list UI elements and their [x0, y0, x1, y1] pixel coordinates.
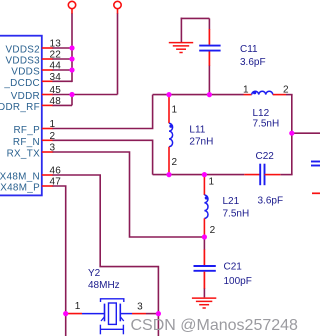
svg-text:Y2: Y2	[88, 268, 101, 279]
pin RF_N 2	[13, 131, 56, 148]
junction node pin13	[69, 45, 74, 50]
wire bottom net right of C22	[280, 174, 292, 176]
junction node C11 bottom	[207, 92, 212, 97]
pin VDDS 44	[11, 61, 61, 78]
pin RF_P 1	[13, 119, 55, 136]
svg-text:C21: C21	[224, 262, 243, 273]
capacitor at right edge (cut off)	[311, 162, 320, 194]
svg-text:VDDS3: VDDS3	[5, 56, 40, 67]
junction node L21 bottom	[202, 234, 207, 239]
svg-text:1: 1	[243, 85, 249, 96]
svg-text:CSDN @Manos257248: CSDN @Manos257248	[131, 317, 299, 334]
pin VDDR 45	[11, 85, 62, 102]
junction node L11 top	[166, 92, 171, 97]
junction node pin22	[69, 56, 74, 61]
svg-text:C22: C22	[256, 151, 275, 162]
svg-text:_DCDC: _DCDC	[3, 78, 40, 89]
junction node pin44	[69, 67, 74, 72]
svg-text:RF_N: RF_N	[13, 137, 40, 148]
ground (top, near C11)	[169, 43, 193, 53]
capacitor C21	[194, 237, 252, 297]
svg-text:27nH: 27nH	[189, 137, 213, 148]
capacitor C22	[244, 151, 283, 207]
wire bottom net y174.6	[153, 174, 245, 176]
svg-text:3.6pF: 3.6pF	[258, 196, 284, 207]
svg-text:VDDR: VDDR	[11, 91, 40, 102]
wire X48M_P path to crystal pin1	[53, 186, 66, 336]
junction node L11 bottom	[166, 172, 171, 177]
svg-text:7.5nH: 7.5nH	[253, 119, 280, 130]
junction node right vertical	[289, 131, 294, 136]
wire top net right of L12	[286, 94, 293, 96]
wire RX_TX bias path	[53, 152, 205, 237]
ground (bottom, under C21)	[192, 298, 216, 308]
svg-text:2: 2	[172, 157, 178, 168]
svg-text:X48M_N: X48M_N	[0, 172, 40, 183]
inductor L12	[243, 85, 289, 130]
svg-text:VDDS: VDDS	[11, 67, 40, 78]
svg-text:X48M_P: X48M_P	[0, 183, 40, 194]
svg-text:1: 1	[172, 105, 178, 116]
wire vertical from P2	[117, 14, 119, 95]
wire pin22 to node	[53, 58, 73, 60]
svg-text:7.5nH: 7.5nH	[223, 209, 250, 220]
svg-text:48MHz: 48MHz	[88, 280, 120, 291]
wire pin48 to node	[53, 104, 73, 106]
wire pin44 to node	[53, 69, 73, 71]
svg-text:1: 1	[75, 301, 81, 312]
svg-text:L11: L11	[189, 125, 205, 136]
pin X48M_N 46	[0, 166, 61, 183]
pin VDDS2 13	[5, 39, 61, 56]
wire VDDR pin45 to P2 vertical	[53, 94, 118, 96]
svg-text:C11: C11	[240, 44, 258, 55]
wire VDDR node down to pin48	[71, 95, 73, 106]
op-amp U1 IC box (left, partially cut)	[0, 36, 42, 196]
wire stub to right edge at node	[292, 132, 320, 134]
pin VDDS3 22	[5, 50, 61, 67]
junction node VDDR	[69, 92, 74, 97]
wire pin34 to node	[53, 80, 73, 82]
svg-text:RF_P: RF_P	[13, 125, 40, 136]
svg-text:L12: L12	[253, 108, 270, 119]
svg-text:L21: L21	[223, 196, 240, 207]
svg-text:3.6pF: 3.6pF	[240, 57, 266, 68]
svg-text:VDDS2: VDDS2	[5, 45, 40, 56]
wire RF_N down to bottom net	[53, 140, 153, 174]
pin VDDR_RF 48	[0, 96, 61, 113]
wire RF_P to balun	[53, 95, 153, 129]
junction node L21 top	[202, 172, 207, 177]
power terminal circle P2	[114, 1, 121, 14]
svg-text:RX_TX: RX_TX	[7, 149, 41, 160]
svg-text:3: 3	[137, 301, 143, 312]
wire pin13 to node	[53, 47, 73, 49]
capacitor C11	[181, 18, 266, 95]
pin VDDS_DCDC 34	[3, 72, 61, 89]
svg-text:VDDR_RF: VDDR_RF	[0, 102, 40, 113]
pin RX_TX 3	[7, 143, 56, 160]
svg-text:1: 1	[209, 176, 215, 187]
svg-text:100pF: 100pF	[224, 276, 252, 287]
inductor L21	[204, 175, 249, 237]
power terminal circle P1	[68, 1, 75, 14]
wire X48M_N path to crystal pin3	[53, 175, 159, 336]
svg-text:2: 2	[283, 85, 289, 96]
wire top net y94.6 left segment	[153, 94, 244, 96]
junction node crystal pin3	[156, 311, 161, 316]
junction node crystal pin1	[63, 311, 68, 316]
crystal Y2 48MHz	[66, 268, 159, 334]
wire right vertical	[291, 95, 293, 175]
pin X48M_P 47	[0, 177, 61, 194]
wire VDDS vertical from P1	[71, 14, 73, 83]
svg-text:2: 2	[210, 225, 216, 236]
inductor L11	[169, 95, 213, 175]
